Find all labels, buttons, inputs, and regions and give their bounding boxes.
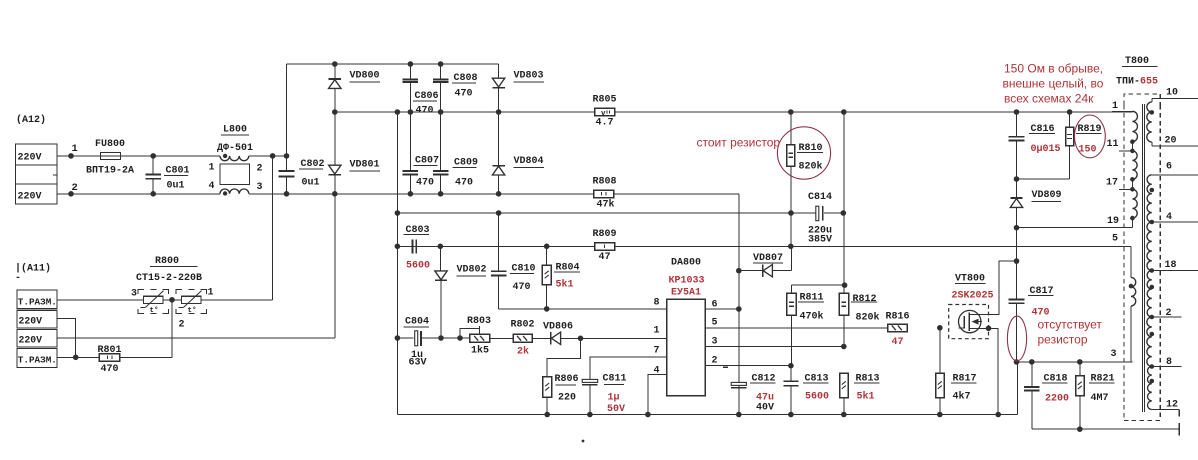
wire L1 from L800 to C802 [249, 155, 287, 157]
svg-text:0u1: 0u1 [167, 180, 185, 191]
svg-text:5: 5 [1112, 234, 1118, 245]
capacitor C810 [498, 213, 500, 271]
op-amp IC DA800 KR1033EU5A1 [667, 299, 705, 396]
svg-text:VD800: VD800 [350, 71, 380, 82]
svg-text:1: 1 [654, 326, 660, 337]
diode VD804 [498, 112, 500, 166]
capacitor C804 [397, 337, 413, 339]
diode VD801 [334, 112, 336, 165]
wire VD806 node to pin1 [581, 337, 667, 339]
svg-text:ВПТ19-2А: ВПТ19-2А [86, 166, 134, 177]
svg-text:VD806: VD806 [543, 322, 573, 333]
svg-text:11: 11 [1107, 139, 1119, 150]
svg-text:150 Ом в обрыве,: 150 Ом в обрыве, [1004, 62, 1103, 76]
wire left feed column x=397.5 [396, 112, 398, 415]
wire down to thermistor pin1 [272, 156, 274, 300]
transformer primary winding 11-17 [1132, 151, 1137, 180]
svg-text:470: 470 [455, 88, 473, 99]
svg-text:5600: 5600 [406, 261, 430, 272]
svg-text:470: 470 [513, 282, 531, 293]
resistor R810 [790, 112, 792, 145]
wire pin19 feed [1017, 227, 1133, 229]
svg-text:C804: C804 [405, 317, 429, 328]
capacitor C809 [440, 112, 442, 171]
stray mark [582, 440, 585, 443]
resistor R802 [513, 334, 532, 342]
resistor R812 [843, 112, 845, 293]
svg-text:1: 1 [208, 288, 214, 299]
resistor R806 [543, 377, 552, 398]
svg-text:19: 19 [1107, 216, 1119, 227]
wire C816/R819 bottoms [1017, 178, 1070, 180]
wire drain [969, 261, 1016, 314]
svg-text:ТПИ-655: ТПИ-655 [1116, 77, 1158, 88]
svg-text:6: 6 [1166, 162, 1172, 173]
resistor R817 [939, 328, 941, 373]
svg-text:63V: 63V [409, 358, 427, 369]
svg-text:470k: 470k [800, 310, 824, 322]
svg-text:5k1: 5k1 [556, 279, 574, 291]
svg-text:Т800: Т800 [1125, 56, 1149, 67]
svg-text:C801: C801 [166, 165, 190, 176]
wire pin6 [705, 308, 739, 310]
svg-text:20: 20 [1165, 136, 1177, 147]
wire transformer pin3 feed [1017, 361, 1133, 363]
wire L2 bottom from connector [57, 193, 220, 195]
svg-text:резистор: резистор [1038, 333, 1088, 347]
svg-text:4: 4 [1166, 212, 1172, 223]
wire pin8 feed [499, 308, 667, 310]
svg-text:R805: R805 [593, 95, 617, 106]
svg-text:R808: R808 [593, 177, 617, 188]
svg-text:ДФ-501: ДФ-501 [217, 143, 253, 154]
resistor R803 [441, 337, 470, 339]
svg-text:R806: R806 [555, 374, 579, 385]
svg-text:C810: C810 [512, 263, 536, 274]
svg-text:5k1: 5k1 [857, 391, 875, 403]
wire pin5 gate drive [705, 327, 888, 329]
svg-text:отсутствует: отсутствует [1038, 318, 1103, 332]
svg-text:2k: 2k [517, 346, 529, 358]
resistor R809 [595, 243, 615, 251]
svg-text:C807: C807 [415, 155, 439, 166]
svg-text:R812: R812 [853, 294, 877, 305]
svg-text:C802: C802 [301, 159, 325, 170]
capacitor C814 [816, 206, 819, 221]
svg-text:2: 2 [257, 164, 263, 175]
svg-text:КР1033: КР1033 [669, 276, 705, 287]
svg-text:47: 47 [892, 337, 904, 348]
svg-text:R816: R816 [886, 312, 910, 323]
wire 220V-2 return to L2 [334, 194, 336, 338]
svg-text:R803: R803 [467, 316, 491, 327]
svg-text:CT15-2-220В: CT15-2-220В [136, 273, 202, 284]
svg-text:470: 470 [416, 178, 434, 189]
svg-text:1: 1 [72, 143, 78, 155]
svg-text:Т.РАЗМ.: Т.РАЗМ. [18, 296, 57, 307]
svg-text:1μ: 1μ [608, 393, 620, 404]
svg-text:12: 12 [1166, 400, 1178, 411]
wire L1 top from connector [57, 155, 101, 157]
transformer shield dashed box [1124, 94, 1160, 105]
svg-text:8: 8 [654, 298, 660, 309]
svg-text:(А12): (А12) [16, 114, 46, 126]
svg-text:C806: C806 [415, 91, 439, 102]
resistor R813 [840, 373, 849, 398]
svg-text:C811: C811 [603, 373, 627, 384]
capacitor C813 [790, 366, 792, 381]
svg-text:220V: 220V [19, 334, 43, 345]
svg-text:R800: R800 [155, 256, 179, 267]
wire pin4 to ground rail [648, 375, 667, 415]
red circle annotation R819 [1075, 115, 1106, 158]
resistor R805 [595, 108, 615, 116]
wire pin3 [705, 346, 844, 348]
capacitor C802 [286, 64, 288, 170]
wire bottom ground rail [397, 414, 1017, 416]
svg-text:470: 470 [101, 364, 119, 375]
svg-text:220V: 220V [18, 153, 42, 164]
svg-text:47k: 47k [597, 199, 615, 211]
svg-text:1: 1 [1112, 101, 1118, 112]
svg-text:470: 470 [455, 177, 473, 188]
svg-text:-: - [15, 273, 21, 284]
svg-text:2: 2 [712, 356, 718, 367]
capacitor C807 [409, 112, 411, 171]
wire 220V-2 to VD801 column [57, 337, 335, 339]
polarity mark minus C812 [723, 366, 728, 368]
svg-text:VD801: VD801 [350, 160, 380, 171]
svg-text:4: 4 [209, 181, 215, 192]
capacitor C803 [412, 239, 414, 253]
resistor R819 [1069, 112, 1071, 127]
wire between thermistors [163, 299, 182, 301]
wire top rail [287, 63, 499, 65]
svg-text:220: 220 [558, 393, 576, 404]
svg-text:4.7: 4.7 [596, 118, 614, 129]
wire L1 to C801/L800 [121, 155, 221, 157]
resistor R811 [790, 285, 792, 293]
wire L2 from L800 to VD801 column [249, 193, 739, 195]
svg-text:17: 17 [1106, 178, 1118, 189]
wire pin2 [705, 365, 791, 367]
svg-text:ЕУ5А1: ЕУ5А1 [671, 288, 701, 299]
svg-text:стоит резистор: стоит резистор [697, 135, 781, 149]
capacitor C801 [152, 156, 154, 175]
svg-text:7: 7 [654, 346, 660, 357]
capacitor C811 [590, 357, 667, 380]
svg-text:220V: 220V [19, 315, 43, 326]
svg-text:820k: 820k [799, 161, 823, 173]
diode VD807 [739, 270, 763, 272]
svg-text:VD809: VD809 [1032, 190, 1062, 201]
svg-text:R809: R809 [593, 229, 617, 240]
svg-text:5600: 5600 [805, 392, 829, 403]
svg-text:R801: R801 [98, 345, 122, 356]
svg-text:VD803: VD803 [514, 71, 544, 82]
svg-text:DA800: DA800 [671, 258, 701, 269]
svg-text:FU800: FU800 [95, 139, 125, 150]
resistor R801 [57, 356, 99, 358]
svg-text:2SK2025: 2SK2025 [952, 291, 994, 302]
node junction to thermistor feed [270, 153, 276, 159]
thermistor R800 element 1 [143, 296, 163, 303]
wire source to ground [989, 328, 999, 414]
svg-text:всех схемах 24к: всех схемах 24к [1004, 92, 1094, 106]
fuse FU800 [101, 152, 121, 159]
wire thermistor pin1 up to L1 [201, 299, 273, 301]
capacitor C818 [1031, 362, 1033, 387]
svg-text:3: 3 [257, 182, 263, 193]
red circle annotation R810 [777, 127, 830, 179]
diode VD800 [334, 64, 336, 79]
svg-text:4M7: 4M7 [1091, 393, 1109, 404]
diode VD806 [532, 337, 551, 339]
svg-text:VD802: VD802 [457, 265, 487, 276]
svg-text:R802: R802 [511, 320, 535, 331]
svg-text:3: 3 [1111, 349, 1117, 360]
wire mid rail B+ [335, 111, 1133, 113]
diode VD802 [439, 246, 441, 271]
wire 220V-1 to R801 node [57, 318, 76, 357]
svg-text:10: 10 [1166, 88, 1178, 99]
wire rail y=246 feedback [397, 245, 1131, 247]
svg-text:820k: 820k [856, 311, 880, 323]
svg-text:50V: 50V [607, 404, 625, 415]
resistor R821 [1079, 362, 1081, 376]
svg-text:2200: 2200 [1045, 394, 1069, 405]
connector XS1 220V box (A12) [16, 144, 58, 204]
wire secondary ground rail [1032, 428, 1179, 430]
wire rail y=213 [397, 212, 816, 214]
diode VD809 [1016, 179, 1018, 198]
svg-text:40V: 40V [756, 403, 774, 414]
svg-text:18: 18 [1165, 260, 1177, 271]
svg-text:3: 3 [712, 337, 718, 348]
capacitor C817 [1016, 261, 1018, 299]
svg-text:1k5: 1k5 [471, 345, 489, 357]
svg-text:4k7: 4k7 [953, 391, 971, 403]
svg-text:5: 5 [712, 318, 718, 329]
wire VD809 node down to drain node [1016, 228, 1018, 261]
svg-text:385V: 385V [808, 235, 832, 246]
svg-text:220V: 220V [18, 192, 42, 203]
red ellipse annotation missing resistor [1007, 316, 1026, 361]
wire VD806 node down to R806 [547, 338, 580, 376]
svg-text:внешне целый, во: внешне целый, во [1003, 77, 1104, 91]
resistor R816 [888, 324, 908, 332]
svg-text:0u1: 0u1 [302, 177, 320, 188]
resistor R804 [546, 246, 548, 265]
thermistor R800 element 2 [181, 296, 201, 303]
svg-text:VD804: VD804 [514, 156, 544, 167]
wire R808 run feed [738, 194, 740, 415]
svg-text:Т.РАЗМ.: Т.РАЗМ. [18, 355, 57, 366]
svg-text:0μ015: 0μ015 [1031, 144, 1061, 155]
svg-text:47: 47 [599, 252, 611, 263]
svg-text:3: 3 [131, 289, 137, 300]
transformer core [1142, 104, 1144, 412]
wire R811-R812 top link [791, 284, 844, 286]
svg-text:C809: C809 [454, 157, 478, 168]
svg-text:C808: C808 [454, 73, 478, 84]
wire source [969, 327, 988, 329]
capacitor C816 [1016, 112, 1018, 136]
diode VD803 [498, 64, 500, 78]
svg-text:2: 2 [179, 320, 185, 331]
capacitor C812 [731, 382, 746, 385]
capacitor C806 [409, 64, 411, 79]
svg-text:L800: L800 [223, 125, 247, 136]
wire T.RAZM to thermistor [57, 299, 143, 301]
svg-text:C814: C814 [808, 192, 832, 203]
svg-text:1: 1 [209, 163, 215, 174]
svg-text:470: 470 [416, 105, 434, 116]
capacitor C808 [440, 64, 442, 79]
transformer primary winding 17-19 [1132, 189, 1137, 218]
connector XS2 box (A11) [17, 290, 57, 309]
resistor R808 [594, 190, 614, 198]
